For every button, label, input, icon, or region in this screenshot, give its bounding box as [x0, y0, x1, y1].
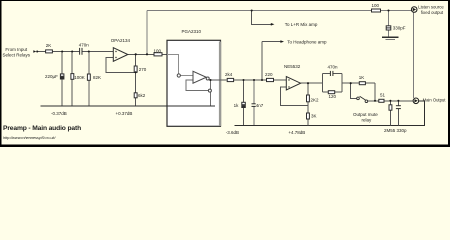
resistor 2k4: [227, 78, 233, 81]
wire block to node A: [342, 82, 351, 84]
resistor 6k2: [134, 93, 137, 98]
svg-text:220µF: 220µF: [45, 74, 58, 79]
svg-text:100: 100: [372, 3, 380, 8]
parallel block 470n/120: [322, 73, 324, 92]
wire 270/8k2 drop: [135, 54, 137, 66]
svg-text:To Headphone amp: To Headphone amp: [287, 39, 327, 44]
svg-text:+4.78dB: +4.78dB: [288, 130, 305, 135]
svg-text:2K: 2K: [46, 43, 52, 48]
relay arm: [360, 96, 366, 100]
wire headphone tap riser: [261, 42, 263, 80]
resistor 100 (top rail): [372, 9, 381, 12]
svg-text:To L+R Mix amp: To L+R Mix amp: [285, 22, 318, 27]
wire shield vertical: [413, 12, 415, 98]
arrowhead headphone amp: [280, 40, 284, 43]
connector listen source: [411, 7, 417, 13]
svg-text:Output mute: Output mute: [353, 112, 378, 117]
svg-text:82K: 82K: [93, 75, 101, 80]
op-amp U3 NE5532: [286, 77, 300, 91]
wire riser to top rail: [146, 11, 148, 55]
PGA2310 box: [167, 40, 221, 126]
wire PGA2310 input path: [167, 54, 179, 74]
capacitor 470n input: [79, 48, 81, 55]
svg-text:PGA2310: PGA2310: [182, 29, 202, 34]
svg-text:2k4: 2k4: [225, 72, 233, 77]
op-amp U2 inside PGA2310: [177, 71, 211, 92]
svg-text:4n7: 4n7: [256, 103, 264, 108]
wire 1K main row: [351, 82, 360, 84]
svg-text:6k2: 6k2: [138, 93, 146, 98]
wire relay feed drop: [351, 83, 357, 98]
resistor 120: [328, 91, 334, 94]
wire PGA2310 agnd drop: [209, 80, 211, 89]
wire PGA2310 feedback loop: [186, 80, 208, 90]
svg-text:220: 220: [265, 72, 273, 77]
wire lower bus: [235, 101, 425, 126]
pin circle input: [177, 74, 180, 77]
svg-text:NE5532: NE5532: [284, 64, 301, 69]
wire ne5532 out: [301, 82, 323, 84]
svg-text:100K: 100K: [74, 75, 85, 80]
svg-text:http://www.mhennessy.f9.co.uk/: http://www.mhennessy.f9.co.uk/: [3, 135, 56, 140]
wire 1k leg: [243, 80, 245, 102]
wire relay out row: [368, 100, 379, 102]
wire PGA2310 output row: [209, 79, 226, 81]
capacitor 470n block: [329, 71, 331, 76]
wire 100K leg: [71, 52, 73, 74]
wire 4n7 leg: [253, 80, 255, 104]
resistor 2K2: [307, 95, 310, 102]
wire opa2134 output row: [128, 53, 154, 55]
capacitor 220uF electrolytic: [60, 74, 64, 79]
svg-text:2K2: 2K2: [311, 98, 320, 103]
svg-text:330p: 330p: [397, 128, 408, 133]
svg-text:-0.37dB: -0.37dB: [51, 111, 67, 116]
capacitor 330pF electrolytic: [386, 26, 391, 30]
ground symbol top right: [382, 36, 399, 38]
wire 82K leg: [88, 52, 90, 75]
wire 51 to output: [384, 100, 413, 102]
relay contact circles: [357, 96, 368, 102]
resistor 51: [379, 99, 384, 102]
svg-text:120: 120: [329, 94, 337, 99]
resistor 270: [134, 66, 137, 72]
wire top rail: [147, 10, 372, 12]
capacitor 4n7: [252, 103, 256, 105]
wire 2M55 leg: [389, 101, 391, 105]
svg-text:3K: 3K: [311, 114, 317, 119]
wire ground rail left: [40, 105, 215, 107]
wire 3K drop: [307, 105, 309, 113]
pin circle agnd: [208, 89, 211, 92]
wire ne5532 feedback: [280, 87, 308, 105]
arrow to mix amp drop: [252, 11, 271, 25]
arrowhead mix amp: [271, 23, 275, 26]
svg-text:1K: 1K: [359, 75, 365, 80]
svg-text:100: 100: [154, 49, 162, 54]
border frame: [0, 0, 450, 147]
svg-text:Select Relays: Select Relays: [3, 53, 31, 58]
wire 220uF leg: [61, 52, 63, 74]
svg-text:relay: relay: [362, 118, 373, 123]
svg-text:470n: 470n: [79, 42, 90, 47]
svg-text:From Input: From Input: [5, 47, 28, 52]
resistor 220: [267, 78, 274, 81]
wire 330p leg: [397, 101, 399, 106]
resistor 2M55: [389, 105, 392, 110]
svg-text:270: 270: [139, 67, 147, 72]
svg-text:+0.37dB: +0.37dB: [116, 111, 133, 116]
resistor 3K: [307, 113, 310, 119]
capacitor 330p: [396, 105, 401, 107]
svg-text:1k: 1k: [234, 103, 240, 108]
svg-text:2M55: 2M55: [384, 128, 396, 133]
svg-text:Listen source: Listen source: [418, 5, 444, 10]
wire ne5532 input row: [267, 79, 274, 81]
resistor 2K: [46, 50, 53, 53]
svg-text:470n: 470n: [328, 65, 339, 70]
resistor 100 (after OPA2134): [154, 53, 162, 56]
op-amp U1 OPA2134: [113, 48, 128, 62]
wire opa2134 feedback loop: [106, 58, 136, 73]
svg-text:-3.6dB: -3.6dB: [226, 130, 239, 135]
resistor 82K: [87, 74, 90, 80]
wire 330pF top leg: [388, 11, 390, 26]
svg-text:OPA2134: OPA2134: [111, 38, 131, 43]
arrow to headphone amp: [262, 41, 280, 43]
resistor 100K: [71, 74, 74, 80]
resistor 1K (mute): [359, 82, 365, 85]
svg-text:330pF: 330pF: [393, 26, 406, 31]
wire main input row: [37, 51, 80, 53]
wire rail inside box: [167, 105, 215, 107]
svg-text:Preamp - Main audio path: Preamp - Main audio path: [3, 125, 81, 132]
capacitor 1k leg electrolytic: [242, 102, 246, 107]
svg-text:Main Output: Main Output: [423, 98, 447, 103]
svg-text:51: 51: [380, 93, 386, 98]
connector main output: [413, 98, 419, 104]
svg-text:fixed output: fixed output: [421, 10, 444, 15]
input arrow: [33, 50, 38, 53]
pin circle output: [206, 77, 209, 80]
